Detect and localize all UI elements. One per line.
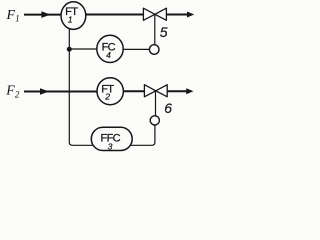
wire junction to FC4 bbox=[69, 48, 97, 50]
svg-text:4: 4 bbox=[106, 50, 111, 60]
label F2 bbox=[5, 83, 20, 99]
svg-text:3: 3 bbox=[108, 142, 113, 152]
svg-text:1: 1 bbox=[68, 15, 73, 25]
wire valve 5 outlet with arrowhead bbox=[166, 12, 194, 18]
valve 6 actuator bbox=[150, 116, 159, 125]
wire F2 inlet with arrowhead bbox=[24, 88, 98, 95]
label 6 bbox=[164, 100, 172, 116]
svg-text:2: 2 bbox=[104, 92, 110, 102]
wire FT1 to valve 5 bbox=[86, 14, 144, 16]
wire valve 5 stem bbox=[154, 14, 156, 45]
flow transmitter FT1 bbox=[61, 2, 86, 30]
svg-text:5: 5 bbox=[160, 24, 168, 40]
controller FC4 bbox=[97, 35, 123, 62]
svg-text:6: 6 bbox=[164, 100, 172, 116]
wire junction down to FFC3 elbow (crosses F2 line) bbox=[69, 49, 92, 145]
label F1 bbox=[6, 8, 20, 23]
ratio controller FFC3 bbox=[91, 127, 132, 151]
wire valve 6 outlet with arrowhead bbox=[167, 88, 193, 94]
control valve 5 bbox=[143, 8, 166, 20]
label 5 bbox=[160, 24, 168, 40]
wire valve 6 stem bbox=[155, 91, 157, 116]
wire F1 inlet with arrowhead bbox=[24, 11, 62, 18]
node junction bbox=[67, 47, 72, 52]
wire FT1 down to junction bbox=[68, 28, 70, 49]
valve 5 actuator bbox=[149, 45, 159, 55]
flow transmitter FT2 bbox=[97, 78, 123, 105]
wire valve 6 actuator to FFC3 bbox=[131, 125, 155, 145]
wire FT2 to valve 6 bbox=[124, 90, 145, 92]
wire FC4 to valve 5 actuator bbox=[123, 48, 149, 50]
control valve 6 bbox=[144, 85, 167, 97]
